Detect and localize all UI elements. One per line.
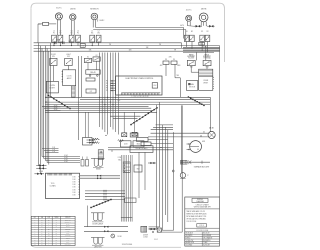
wire switch row to bus stems: [54, 42, 99, 46]
svg-text:NO: NO: [34, 217, 36, 219]
svg-text:P2: P2: [59, 33, 61, 35]
surface element LR (2B/7B): [70, 8, 77, 35]
oven light relay box: [46, 81, 58, 93]
connector P12 (slanted pin row right): [188, 96, 205, 106]
svg-text:FAN: FAN: [190, 83, 194, 86]
figure note: [154, 239, 158, 241]
door lock motor (striped): [141, 226, 149, 238]
oven lamp: [148, 128, 215, 139]
svg-text:2: 2: [34, 222, 35, 224]
svg-text:11: 11: [34, 242, 36, 244]
svg-text:Y-YELLOW: Y-YELLOW: [186, 240, 194, 242]
svg-text:W1: W1: [91, 33, 94, 35]
wire bus ground run: [34, 50, 220, 52]
svg-text:P2: P2: [56, 233, 58, 235]
svg-text:1 40RC: 1 40RC: [99, 20, 106, 22]
svg-text:SENSOR: SENSOR: [90, 8, 99, 10]
svg-text:18 BU: 18 BU: [39, 171, 43, 173]
svg-text:36 RD: 36 RD: [56, 40, 61, 42]
svg-text:18: 18: [41, 226, 43, 228]
relay K2 box: [93, 55, 100, 61]
svg-text:21 R: 21 R: [52, 149, 55, 151]
svg-text:MOTOR: MOTOR: [189, 87, 196, 89]
relay contact CR2 (x-box): [132, 132, 137, 136]
svg-text:P5: P5: [56, 240, 58, 242]
svg-text:L2: L2: [56, 224, 58, 226]
svg-text:41: 41: [203, 132, 205, 134]
svg-text:P8: P8: [165, 59, 167, 61]
box relay body B: [133, 141, 144, 147]
label switch terminals right: [190, 67, 209, 69]
svg-text:L1: L1: [91, 31, 93, 33]
wire right-mid connections: [191, 46, 207, 73]
wire harness fan (horizontal runs): [45, 97, 210, 131]
electronic oven control board U1: [116, 76, 163, 95]
svg-text:88-BB: 88-BB: [96, 169, 100, 171]
door latch motor winding upper: [91, 213, 105, 226]
svg-text:13 BK: 13 BK: [54, 107, 58, 109]
svg-text:18: 18: [41, 219, 43, 221]
svg-text:1: 1: [34, 219, 35, 221]
connector block with pins right of loops: [118, 157, 131, 172]
bake element housing box: [199, 76, 214, 90]
svg-text:COLOR CODE: COLOR CODE: [186, 221, 196, 223]
wire feeds into X-boxes: [124, 112, 134, 133]
wire lines door area left: [139, 152, 145, 198]
svg-text:18: 18: [41, 224, 43, 226]
svg-text:W2: W2: [97, 33, 100, 35]
svg-text:46: 46: [200, 135, 202, 137]
svg-text:SURF SW: SURF SW: [65, 219, 72, 221]
svg-text:K2: K2: [96, 55, 98, 57]
svg-text:4 RD: 4 RD: [169, 56, 172, 58]
hidden bake element loops upper: [91, 158, 105, 170]
label broil elements: [203, 54, 211, 58]
svg-text:L1: L1: [56, 219, 58, 221]
label bake elements: [188, 53, 196, 58]
connector P11 (slanted pin row bottom): [90, 199, 111, 208]
svg-text:7: 7: [34, 233, 35, 235]
junction dot at fuse feed: [101, 152, 102, 153]
wire rows with ticks 2: [85, 190, 125, 201]
svg-text:10: 10: [34, 240, 36, 242]
svg-text:DOOR: DOOR: [143, 235, 149, 237]
svg-text:GY: GY: [48, 231, 50, 233]
connector plug P6 on element RF lead: [38, 22, 56, 42]
notes subtitle: [194, 203, 211, 208]
wire right section jumpers: [183, 42, 220, 53]
junction box under comb: [124, 198, 136, 203]
junction dots: [45, 45, 168, 152]
svg-text:CIRCUIT: CIRCUIT: [65, 217, 71, 219]
staircase boxes below connector P1: [130, 133, 151, 146]
svg-text:9: 9: [34, 237, 35, 239]
svg-text:WIRING: WIRING: [197, 199, 204, 201]
page border frame: [31, 3, 225, 247]
svg-text:51 BK: 51 BK: [117, 236, 122, 238]
svg-text:L2: L2: [98, 31, 100, 33]
svg-text:L1: L1: [71, 31, 73, 33]
svg-text:LOCK: LOCK: [143, 236, 148, 238]
svg-text:16: 16: [41, 233, 43, 235]
svg-text:2B/7B: 2B/7B: [70, 8, 76, 10]
svg-text:CLEAN: CLEAN: [50, 185, 57, 188]
svg-text:1 2 3 4 5 6 7 8 9 10 11 12: 1 2 3 4 5 6 7 8 9 10 11 12: [132, 96, 149, 98]
svg-text:TERM: TERM: [54, 217, 59, 219]
svg-text:1BK: 1BK: [89, 50, 92, 52]
hi-limit thermostat switch: [187, 58, 195, 66]
thermal switch: [203, 57, 211, 66]
surface element RF (3C/7C): [55, 8, 62, 36]
svg-text:18: 18: [41, 240, 43, 242]
svg-text:54 GY: 54 GY: [64, 155, 68, 157]
svg-text:CLR: CLR: [47, 217, 50, 219]
svg-text:P: P: [48, 240, 49, 242]
wire number labels on buses: [68, 41, 176, 52]
disconnect plug on RR element leads: [206, 25, 214, 28]
svg-text:18: 18: [41, 222, 43, 224]
warmer switch - contact 1: [90, 31, 95, 42]
svg-text:3C/7C: 3C/7C: [56, 8, 62, 10]
splice connectors on bus L1: [55, 40, 65, 45]
svg-text:H4: H4: [201, 44, 203, 46]
junction arrows right-center: [148, 162, 156, 164]
wire right vertical bus L2: [219, 46, 221, 197]
svg-text:14B3: 14B3: [177, 65, 180, 67]
wire bus N: [34, 45, 220, 47]
svg-text:SW: SW: [137, 169, 140, 171]
svg-text:21 R: 21 R: [52, 151, 55, 153]
svg-text:DLB: DLB: [124, 144, 128, 146]
svg-text:H2: H2: [55, 228, 57, 230]
wire stub rows to latch unit: [42, 155, 80, 163]
EOC bottom terminal row: [121, 93, 160, 98]
wire vertical feed to latch: [87, 206, 89, 227]
wire left bus column: [39, 43, 51, 174]
relay contact CR1 (x-box): [122, 133, 127, 137]
svg-text:DOOR: DOOR: [51, 54, 57, 56]
svg-text:CIRCUIT CHART: CIRCUIT CHART: [196, 203, 209, 206]
color code header: [196, 230, 209, 232]
timer latch unit box: [46, 173, 80, 198]
resistor R2 vertical box: [81, 157, 84, 167]
svg-text:RELAY BOARD: RELAY BOARD: [136, 147, 149, 150]
svg-text:GN-GREEN: GN-GREEN: [203, 235, 211, 237]
svg-text:13R: 13R: [146, 47, 149, 49]
wire left-mid verticals: [53, 56, 88, 140]
infinite switch LR - contact 1: [69, 31, 74, 42]
svg-text:5: 5: [34, 228, 35, 230]
wire bus L2 horizontal: [34, 47, 220, 49]
oven sensor probe (SENSOR): [90, 8, 105, 27]
svg-text:8 P: 8 P: [90, 91, 92, 93]
svg-text:4C/7C: 4C/7C: [186, 10, 192, 12]
svg-text:V-VIOLET: V-VIOLET: [203, 245, 210, 247]
svg-text:SW: SW: [52, 56, 55, 58]
wire rows with arrows 1: [80, 175, 120, 179]
broil element (striped block): [199, 69, 213, 76]
infinite switch RF - contact 1: [52, 31, 57, 42]
svg-text:Y: Y: [48, 226, 49, 228]
svg-text:4B/7B: 4B/7B: [201, 8, 207, 10]
svg-text:P2: P2: [77, 33, 79, 35]
svg-text:1 BK: 1 BK: [72, 177, 75, 179]
surface element LF (4C/7C): [186, 10, 192, 26]
resistor pair mid: [93, 138, 100, 144]
svg-text:P17: P17: [117, 100, 120, 102]
wire drops turning into door lock: [149, 227, 183, 232]
svg-text:18: 18: [41, 228, 43, 230]
broil switch contact: [200, 31, 205, 41]
quick connect arrows mid-left: [87, 139, 96, 144]
svg-text:G: G: [56, 235, 57, 237]
svg-text:16: 16: [41, 231, 43, 233]
resistor R1 zigzag: [118, 140, 124, 142]
diagram part number: [122, 244, 133, 246]
terminal H3: [80, 44, 85, 48]
label connector P1: [117, 100, 120, 102]
box relay body A: [121, 141, 132, 147]
terminal ring on drop: [172, 170, 174, 172]
wire bus L1 (top): [34, 43, 182, 48]
svg-text:L57-3: L57-3: [199, 225, 203, 227]
svg-text:DOOR LATCH: DOOR LATCH: [93, 222, 104, 225]
heating element bar (striped): [72, 86, 76, 98]
svg-text:P4: P4: [56, 237, 58, 239]
convection fan motor: [187, 141, 206, 153]
svg-text:18: 18: [41, 237, 43, 239]
wire rows bottom with arrows: [84, 226, 128, 233]
svg-text:BROIL: BROIL: [204, 54, 209, 56]
bake switch contact 2: [190, 31, 195, 41]
svg-text:1 BK: 1 BK: [72, 182, 75, 184]
svg-text:16: 16: [41, 235, 43, 237]
svg-text:RELAY: RELAY: [90, 71, 96, 74]
svg-text:1 BK: 1 BK: [72, 184, 75, 186]
keyboard connector boxes above EOC: [160, 56, 181, 97]
svg-text:9R: 9R: [174, 50, 176, 52]
svg-text:15BK: 15BK: [68, 41, 71, 43]
svg-text:4: 4: [34, 226, 35, 228]
svg-text:8: 8: [34, 235, 35, 237]
svg-text:LATCH SW: LATCH SW: [94, 245, 102, 248]
wire mid cluster runs: [108, 140, 173, 150]
svg-text:P6: P6: [56, 242, 58, 244]
svg-text:VENT: VENT: [203, 82, 209, 84]
svg-text:GROUND: GROUND: [65, 235, 71, 237]
svg-text:4B3: 4B3: [160, 65, 163, 67]
svg-text:SURFACE IND LIGHT: SURFACE IND LIGHT: [194, 165, 209, 168]
svg-text:R2: R2: [206, 31, 208, 33]
svg-text:3: 3: [34, 224, 35, 226]
svg-text:BR: BR: [48, 228, 50, 230]
svg-text:M: M: [197, 149, 199, 151]
terminal block TB1: [86, 78, 95, 81]
svg-text:BROIL: BROIL: [66, 226, 70, 228]
svg-text:H1: H1: [55, 226, 57, 228]
comb connector under EOC drops: [121, 155, 133, 222]
svg-text:21 R: 21 R: [52, 147, 55, 149]
svg-text:9 BU: 9 BU: [118, 159, 121, 161]
terminal block TB2: [86, 89, 96, 93]
svg-text:40/76: 40/76: [180, 25, 184, 27]
svg-text:CONV: CONV: [66, 242, 70, 244]
svg-text:P9: P9: [173, 59, 175, 61]
door lock aux contact x-box: [157, 228, 161, 232]
svg-text:ELEMENT: ELEMENT: [65, 244, 71, 246]
svg-text:L2: L2: [60, 31, 62, 33]
oven door switch: [50, 54, 57, 65]
clock display box inside EOC: [152, 83, 157, 88]
svg-text:T: T: [48, 242, 49, 244]
svg-text:BR-BROWN: BR-BROWN: [186, 242, 194, 244]
wire sensor lines to right section: [93, 25, 186, 41]
EOC left pin stubs: [106, 80, 115, 92]
wire links drops to connector P1: [110, 116, 140, 118]
svg-text:TRACE WIRE AND COLOR: TRACE WIRE AND COLOR: [186, 210, 206, 213]
svg-text:P: P: [187, 175, 189, 177]
oven temp bulb (thermostat capillary): [180, 105, 189, 178]
svg-text:1 BK: 1 BK: [72, 179, 75, 181]
door latch motor winding lower: [91, 238, 105, 249]
color code table: [185, 232, 220, 247]
bake switch contact: [184, 31, 189, 41]
connector P1 (slanted pin row center): [130, 107, 157, 125]
relay coil box: [86, 70, 100, 77]
connector P4 (slanted pin row left): [48, 95, 71, 109]
svg-text:BU: BU: [48, 233, 50, 235]
wire stub labels lower: [42, 147, 59, 153]
svg-text:L1: L1: [53, 31, 55, 33]
svg-text:1 BK: 1 BK: [72, 187, 75, 189]
control relay box with label: [130, 146, 153, 153]
svg-text:GN: GN: [48, 235, 50, 237]
warmer switch - contact 2: [96, 31, 101, 42]
cooling fan box: [186, 81, 197, 91]
svg-text:4B 4B: 4B 4B: [209, 128, 213, 130]
svg-text:1 BK: 1 BK: [72, 192, 75, 194]
quick-connects left harness: [34, 164, 46, 175]
notes divider 1: [185, 208, 220, 210]
svg-text:13 BK: 13 BK: [54, 109, 58, 111]
svg-text:1 BK: 1 BK: [72, 189, 75, 191]
svg-text:LOCK: LOCK: [66, 233, 70, 235]
svg-text:N: N: [56, 222, 57, 224]
svg-text:LIGHT: LIGHT: [66, 237, 70, 239]
infinite switch RF - contact 2: [58, 31, 63, 42]
svg-text:BK-BLACK: BK-BLACK: [186, 232, 193, 235]
svg-text:54 GY: 54 GY: [64, 161, 68, 163]
svg-text:6: 6: [34, 231, 35, 233]
wire K1 K2 to relay: [88, 61, 97, 70]
svg-text:BK: BK: [48, 219, 50, 221]
svg-text:54 GY: 54 GY: [64, 159, 68, 161]
disconnect plug on LF element leads: [188, 25, 203, 28]
svg-text:CLK: CLK: [153, 85, 157, 87]
indicator bulb bottom: [111, 234, 123, 238]
svg-text:SW: SW: [67, 56, 70, 58]
broil switch contact 2: [205, 31, 210, 41]
wire fan out of connector P1 to right: [151, 125, 173, 130]
svg-text:BAKE: BAKE: [189, 53, 194, 56]
svg-text:P1: P1: [53, 33, 55, 35]
svg-text:MDL: MDL: [137, 144, 141, 146]
svg-text:LIGHT: LIGHT: [66, 54, 71, 56]
svg-text:LIGHT: LIGHT: [50, 88, 56, 90]
svg-text:R: R: [48, 224, 49, 226]
oven fuse (striped): [98, 150, 103, 160]
notes title box: [192, 198, 208, 203]
junction box mid-left: [83, 138, 93, 146]
svg-text:R1: R1: [201, 31, 203, 33]
svg-text:HI-LIMIT: HI-LIMIT: [188, 58, 194, 60]
surface element RR dual (4B/7B): [199, 8, 208, 25]
door lock plug arrows: [149, 228, 157, 233]
svg-text:P1: P1: [71, 33, 73, 35]
wire chart table: [31, 216, 75, 246]
svg-text:H3: H3: [82, 46, 84, 48]
svg-text:13 BK: 13 BK: [54, 105, 58, 107]
svg-text:18: 18: [41, 242, 43, 244]
svg-text:1 BK: 1 BK: [72, 194, 75, 196]
terminal H4: [199, 42, 205, 45]
surface indicator light row: [181, 160, 211, 168]
svg-text:7BK: 7BK: [176, 75, 179, 77]
svg-text:P1: P1: [56, 231, 58, 233]
wire stub labels upper: [42, 105, 61, 111]
svg-text:W: W: [48, 222, 50, 224]
notes box: [185, 197, 220, 246]
resistor R3 vertical box: [86, 157, 89, 167]
svg-text:BU-BLUE: BU-BLUE: [203, 233, 210, 235]
infinite switch LR - contact 2: [76, 31, 81, 42]
wire EOC drop lines: [100, 53, 119, 135]
svg-text:K1: K1: [87, 56, 89, 58]
svg-text:P-PURPLE: P-PURPLE: [203, 240, 211, 242]
svg-text:54 GY: 54 GY: [64, 157, 68, 159]
svg-text:ELECTRONIC OVEN CONTROL: ELECTRONIC OVEN CONTROL: [126, 78, 154, 80]
svg-text:316259306: 316259306: [122, 244, 133, 246]
svg-text:OR: OR: [48, 237, 50, 239]
notes divider 2: [185, 227, 220, 229]
svg-text:FIG 2: FIG 2: [154, 239, 158, 241]
notes paragraph: [186, 210, 207, 223]
svg-text:L2: L2: [77, 31, 79, 33]
door switch box lower: [134, 165, 142, 172]
door lock assembly box: [62, 70, 76, 86]
svg-text:W-WHITE: W-WHITE: [186, 235, 193, 237]
svg-text:4 33: 4 33: [202, 141, 205, 143]
wire long drops to door lock: [157, 102, 183, 232]
notes part tag box: [197, 224, 207, 228]
svg-text:B2: B2: [191, 31, 193, 33]
relay K1 box: [84, 56, 91, 62]
svg-text:ASSY: ASSY: [67, 77, 73, 80]
oven light switch: [65, 54, 73, 65]
svg-text:SENSOR: SENSOR: [65, 228, 70, 230]
